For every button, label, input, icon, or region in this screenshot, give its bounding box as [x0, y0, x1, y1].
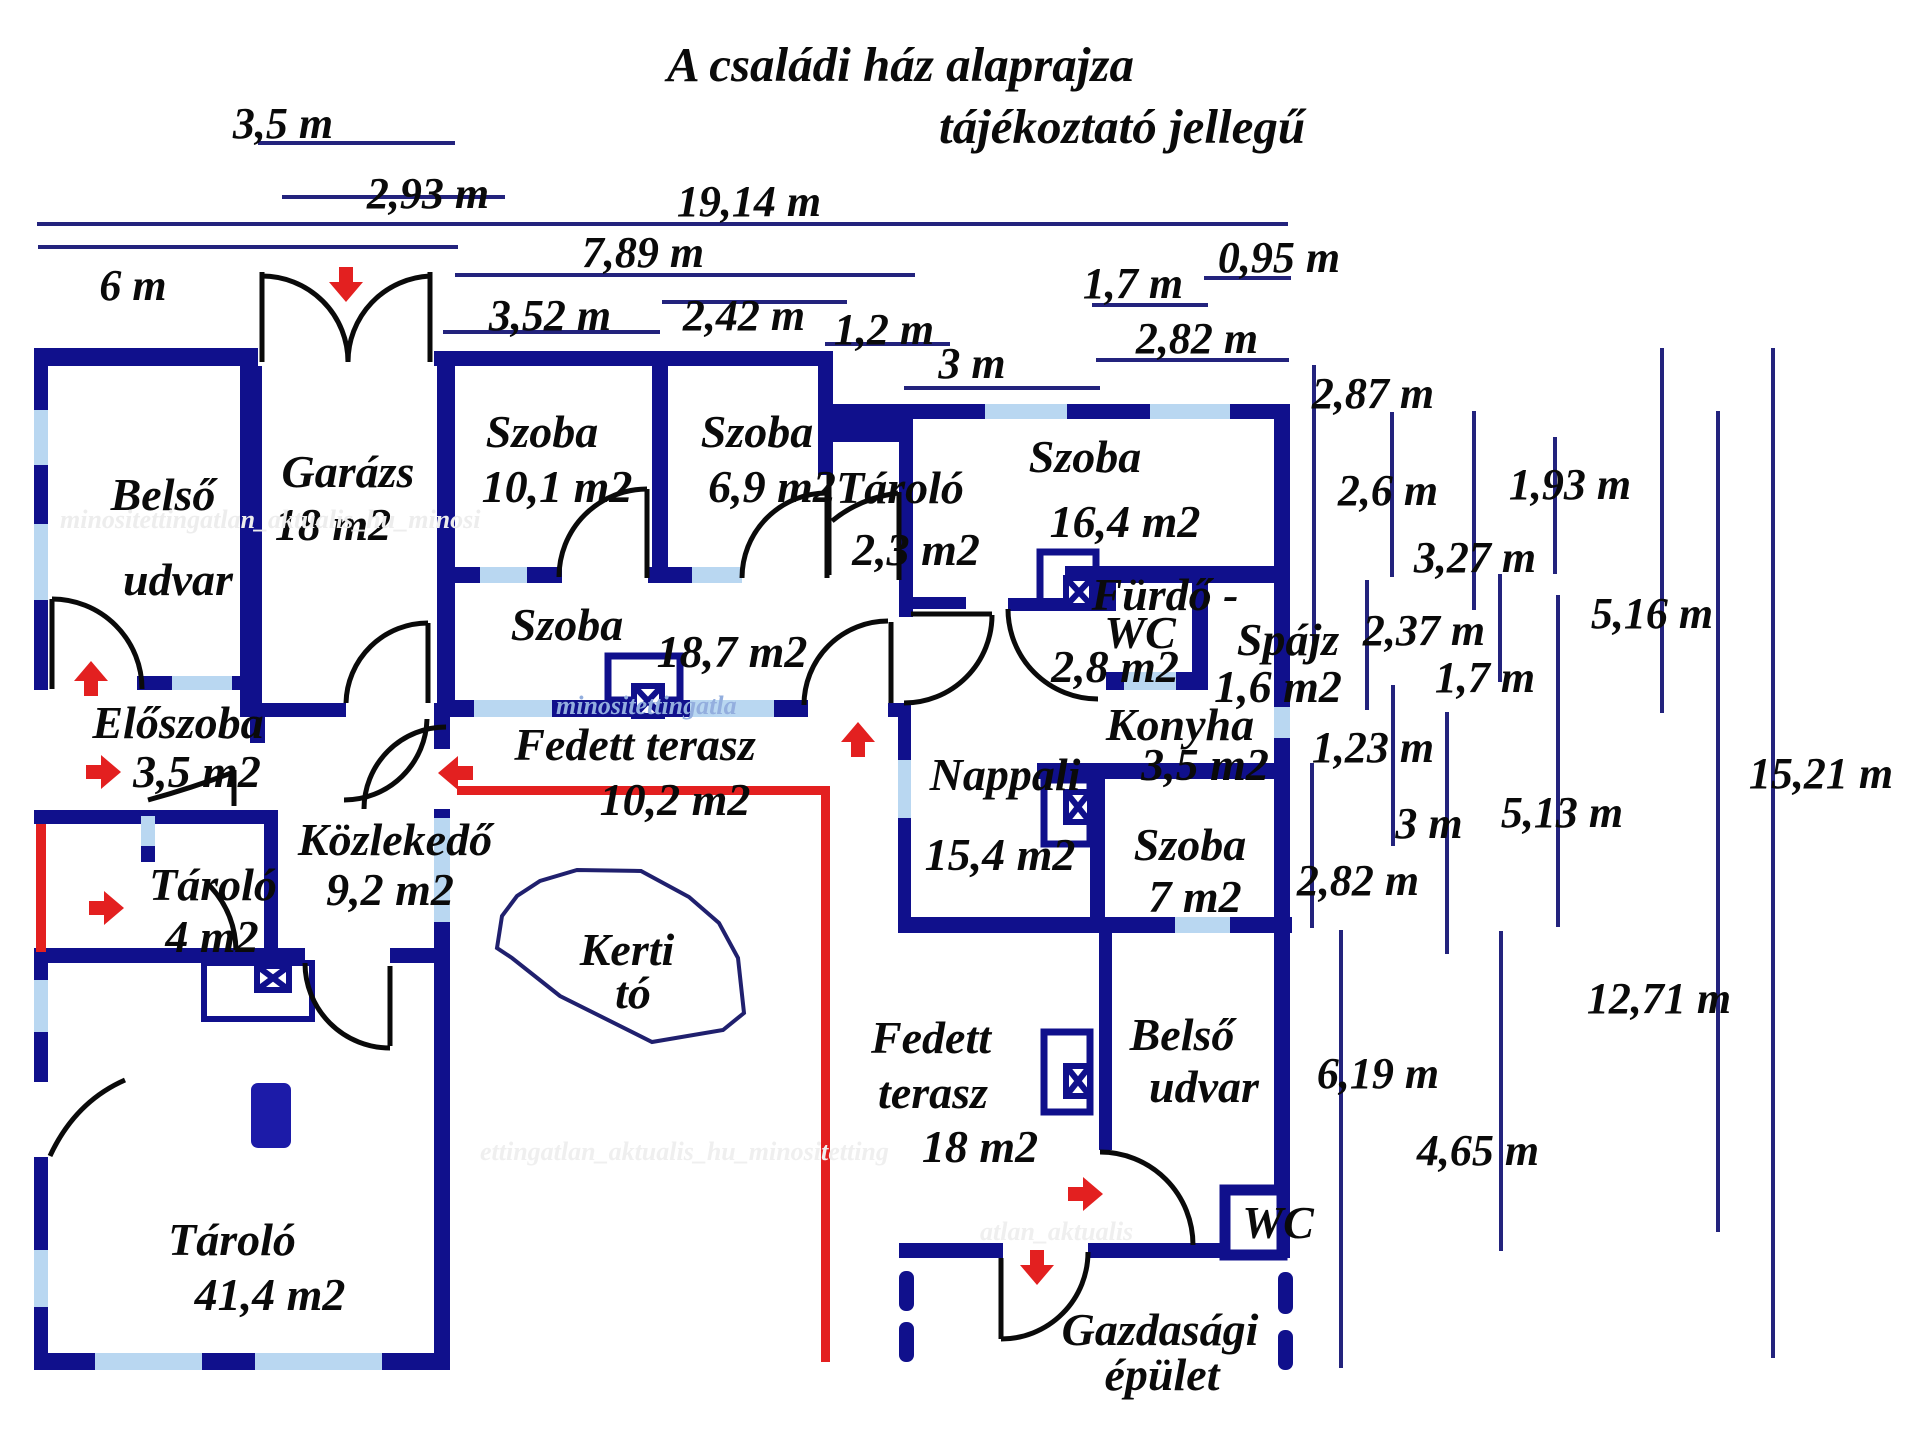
svg-text:6 m: 6 m — [99, 261, 166, 310]
window bottom wall 1 — [95, 1353, 202, 1370]
door szoba6,9 arc — [742, 493, 827, 578]
svg-text:A családi ház alaprajza: A családi ház alaprajza — [664, 37, 1134, 92]
arrow left kozlekedo — [438, 756, 473, 790]
svg-text:10,1 m2: 10,1 m2 — [482, 461, 633, 512]
svg-text:15,21 m: 15,21 m — [1749, 749, 1893, 798]
right wing east wall — [1274, 404, 1290, 707]
fürdő west wall — [1099, 577, 1116, 611]
garage north door left arc — [262, 276, 348, 362]
door belso udvar arc — [52, 599, 142, 689]
svg-text:Garázs: Garázs — [282, 446, 415, 497]
svg-text:12,71 m: 12,71 m — [1587, 974, 1731, 1023]
svg-text:Nappali: Nappali — [929, 749, 1081, 800]
svg-text:udvar: udvar — [123, 554, 234, 605]
window under szoba10,1 — [480, 567, 527, 583]
stub wall 2 — [1008, 598, 1100, 611]
window nappali west — [898, 760, 911, 818]
svg-text:tájékoztató jellegű: tájékoztató jellegű — [939, 99, 1307, 154]
svg-text:3 m: 3 m — [1394, 799, 1462, 848]
dim line 3 m — [904, 386, 1100, 390]
svg-text:minositettingatlan_aktualis_hu: minositettingatlan_aktualis_hu_minosi — [60, 505, 481, 534]
door szoba6,9 leaf — [825, 493, 830, 578]
north wall mid segment — [434, 351, 831, 366]
divider szoba10,1/6,9 — [652, 366, 668, 580]
red wall taroló4 — [36, 824, 46, 952]
svg-text:Gazdasági: Gazdasági — [1062, 1304, 1259, 1355]
svg-text:Szoba: Szoba — [486, 406, 598, 457]
arrow right belso udvar lower — [1068, 1177, 1103, 1211]
garage west wall — [240, 366, 262, 717]
window west wall lower 2 — [34, 1250, 48, 1307]
door taroló2,3 second leaf — [897, 492, 902, 580]
dim line 3 m second vertical — [1445, 712, 1449, 954]
svg-text:2,82 m: 2,82 m — [1296, 856, 1419, 905]
eloszoba door leaf — [232, 770, 237, 806]
stove big taroló xbox — [257, 966, 289, 990]
garage north door right arc — [348, 276, 430, 362]
svg-text:3,5 m2: 3,5 m2 — [132, 746, 261, 797]
door B arc — [904, 615, 992, 703]
svg-text:19,14 m: 19,14 m — [677, 177, 821, 226]
arrow down garage — [329, 267, 363, 302]
bottom wall right wing — [899, 1243, 1003, 1258]
svg-text:3,5 m: 3,5 m — [232, 99, 333, 148]
svg-text:41,4 m2: 41,4 m2 — [194, 1269, 346, 1320]
garage south door arc — [346, 623, 428, 703]
svg-text:2,82 m: 2,82 m — [1135, 314, 1258, 363]
right wing north wall — [900, 404, 985, 419]
door E leaf — [999, 1258, 1004, 1339]
svg-text:18 m2: 18 m2 — [922, 1121, 1038, 1172]
big taroló top door arc — [305, 963, 390, 1048]
svg-text:9,2 m2: 9,2 m2 — [326, 864, 454, 915]
stub wall 1 — [911, 597, 966, 609]
window band 1 — [474, 700, 552, 717]
red terrace line horizontal — [457, 786, 830, 795]
taroló4 east wall — [264, 810, 278, 963]
dim line 5,13 m vertical — [1556, 595, 1560, 927]
dim line 19,14 m — [37, 222, 1288, 226]
dim line 1,2 m — [825, 342, 950, 346]
svg-text:Tároló: Tároló — [836, 462, 964, 513]
konyha/szoba7 wall — [1037, 763, 1280, 779]
garage east wall — [437, 351, 455, 704]
svg-text:tó: tó — [615, 967, 651, 1018]
door belso udvar leaf — [50, 599, 55, 689]
stove szoba 16,4 outline — [1040, 552, 1096, 602]
svg-text:6,19 m: 6,19 m — [1317, 1049, 1439, 1098]
dim line 15,21 m vertical — [1771, 348, 1775, 1358]
svg-text:10,2 m2: 10,2 m2 — [600, 774, 751, 825]
stove szoba7 xbox — [1066, 792, 1090, 822]
dim line 2,93 m — [282, 195, 505, 199]
kozlekedo door arc second — [344, 719, 427, 800]
dashed line right gazdasagi — [1278, 1272, 1293, 1314]
door D arc — [1100, 1152, 1193, 1245]
svg-text:1,23 m: 1,23 m — [1312, 723, 1434, 772]
stove belso udvar lower xbox — [1066, 1066, 1090, 1096]
svg-text:Fedett terasz: Fedett terasz — [513, 719, 756, 770]
stove belso udvar lower outline — [1044, 1032, 1090, 1112]
svg-text:Tároló: Tároló — [168, 1214, 296, 1265]
eloszoba door arc — [148, 772, 234, 800]
window west wall 2 — [34, 524, 48, 600]
dim line 3,27 m vertical — [1472, 411, 1476, 610]
szoba7 west wall — [1090, 763, 1105, 933]
dim line 7,89 m — [455, 273, 915, 277]
stove szoba 18,7 xbox — [634, 686, 662, 716]
stove szoba 16,4 xbox — [1066, 578, 1092, 606]
dim line 2,82 m — [1096, 358, 1289, 362]
window belso udvar bottom — [172, 676, 232, 690]
svg-text:udvar: udvar — [1149, 1061, 1260, 1112]
dim line 2,42 m — [662, 300, 847, 304]
svg-text:2,3 m2: 2,3 m2 — [851, 524, 980, 575]
fürdő bottom wall — [1106, 672, 1124, 690]
arrow down gazdasagi — [1020, 1250, 1054, 1285]
west wall lower segments — [34, 952, 48, 980]
window north wall right wing 2 — [1150, 404, 1230, 419]
svg-text:3,52 m: 3,52 m — [488, 291, 611, 340]
arrow up belso udvar — [74, 661, 108, 696]
window eloszoba stub — [141, 816, 155, 846]
dashed line left gazdasagi — [899, 1271, 914, 1311]
wall under szobas — [448, 567, 480, 583]
svg-text:1,7 m: 1,7 m — [1083, 259, 1183, 308]
door taroló2,3 arc — [832, 493, 898, 521]
eloszoba/taroló4 top wall — [34, 810, 278, 824]
svg-text:15,4 m2: 15,4 m2 — [925, 829, 1076, 880]
svg-text:5,13 m: 5,13 m — [1501, 788, 1623, 837]
dim line 1,93 m vertical — [1553, 437, 1557, 574]
svg-text:4,65 m: 4,65 m — [1416, 1126, 1539, 1175]
szoba 16,4 bottom wall — [1065, 566, 1278, 583]
window szoba7 bottom — [1175, 917, 1230, 933]
dim line 12,71 m vertical — [1716, 411, 1720, 1232]
window north wall right wing 1 — [985, 404, 1067, 419]
svg-text:atlan_aktualis: atlan_aktualis — [980, 1217, 1133, 1246]
door C arc — [1008, 609, 1098, 699]
svg-text:2,8 m2: 2,8 m2 — [1050, 641, 1179, 692]
garage north door right leaf — [428, 272, 433, 362]
dim line 2,6 m vertical — [1390, 412, 1394, 577]
door B leaf — [911, 612, 992, 617]
bottom wall big taroló — [34, 1353, 95, 1370]
belso udvar bottom wall — [137, 676, 172, 690]
window under szoba6,9 — [692, 567, 742, 583]
svg-text:2,87 m: 2,87 m — [1311, 369, 1434, 418]
svg-text:Fedett: Fedett — [870, 1012, 992, 1063]
taroló4/bigtarolo wall — [34, 948, 305, 963]
corner block — [826, 404, 913, 442]
hall west wall below block — [899, 442, 913, 617]
big taroló west door arc — [50, 1080, 125, 1156]
big taroló top door leaf — [388, 966, 393, 1046]
dim line 1,7 m second vertical — [1498, 574, 1502, 682]
svg-text:2,37 m: 2,37 m — [1362, 606, 1485, 655]
door E arc — [1001, 1252, 1088, 1339]
svg-text:Előszoba: Előszoba — [91, 697, 263, 748]
dim line 2,82 m second vertical — [1310, 763, 1314, 928]
svg-text:minositettingatla: minositettingatla — [556, 691, 737, 720]
svg-text:Szoba: Szoba — [701, 406, 813, 457]
window band 2 — [690, 700, 774, 717]
door szoba10,1 arc — [559, 489, 647, 577]
door A arc — [804, 621, 888, 705]
arrow right taroló4 — [89, 891, 124, 925]
door szoba10,1 leaf — [645, 489, 650, 578]
garage wall stub below — [250, 717, 265, 743]
kozlekedo-terrace door arc — [364, 727, 446, 809]
band wall y700 segments — [448, 700, 474, 717]
svg-text:terasz: terasz — [878, 1067, 988, 1118]
dim line 6,19 m vertical — [1339, 930, 1343, 1368]
window fürdő bottom — [1124, 672, 1176, 690]
south wall nappali/szoba7 — [899, 917, 1175, 933]
svg-text:1,2 m: 1,2 m — [834, 305, 934, 354]
dim line 1,23 m vertical — [1391, 685, 1395, 846]
door taroló2,3 leaf — [827, 475, 832, 575]
north wall left segment — [34, 348, 258, 366]
door A leaf — [889, 622, 894, 703]
window west wall lower 1 — [34, 980, 48, 1032]
svg-text:3,5 m2: 3,5 m2 — [1140, 739, 1269, 790]
red terrace line vertical — [821, 786, 830, 1362]
dim line 0,95 m — [1204, 276, 1291, 280]
stove szoba7 outline — [1044, 780, 1090, 844]
svg-text:1,93 m: 1,93 m — [1509, 460, 1631, 509]
dim line 4,65 m vertical — [1499, 931, 1503, 1251]
stove big taroló outline — [204, 963, 312, 1019]
svg-text:18,7 m2: 18,7 m2 — [657, 626, 808, 677]
nappali west wall — [898, 705, 911, 760]
svg-text:0,95 m: 0,95 m — [1218, 233, 1340, 282]
svg-text:3,27 m: 3,27 m — [1413, 533, 1536, 582]
svg-text:16,4 m2: 16,4 m2 — [1050, 496, 1201, 547]
dim line 5,16 m vertical — [1660, 348, 1664, 713]
arrow up terrace — [841, 722, 875, 757]
svg-text:2,6 m: 2,6 m — [1337, 466, 1438, 515]
garage south wall — [252, 703, 346, 717]
taroló4 interior door arc — [206, 882, 236, 950]
window kozlekedo east — [434, 818, 450, 922]
svg-text:Spájz: Spájz — [1237, 614, 1339, 665]
svg-text:6,9 m2: 6,9 m2 — [708, 461, 836, 512]
window east wall — [1274, 707, 1290, 738]
garage north door left leaf — [260, 272, 265, 362]
svg-text:Szoba: Szoba — [1134, 819, 1246, 870]
dim line 2,37 m vertical — [1365, 580, 1369, 710]
stove szoba 18,7 outline — [608, 656, 680, 700]
west wall upper — [34, 348, 48, 410]
svg-text:7,89 m: 7,89 m — [582, 228, 704, 277]
dim line 6 m — [38, 245, 458, 249]
garage south door leaf — [426, 623, 431, 703]
fürdő/spájz divider — [1192, 577, 1208, 690]
window west wall 1 — [34, 410, 48, 465]
svg-text:2,42 m: 2,42 m — [682, 291, 805, 340]
svg-text:WC: WC — [1242, 1197, 1315, 1248]
svg-text:5,16 m: 5,16 m — [1591, 589, 1713, 638]
kozlekedo east wall pieces — [434, 703, 450, 749]
dim line 3,5 m — [258, 141, 455, 145]
svg-text:1,7 m: 1,7 m — [1435, 653, 1535, 702]
window bottom wall 2 — [255, 1353, 382, 1370]
svg-text:Tároló: Tároló — [149, 859, 277, 910]
svg-text:3 m: 3 m — [937, 339, 1005, 388]
svg-text:4 m2: 4 m2 — [164, 911, 258, 962]
svg-text:épület: épület — [1105, 1349, 1221, 1400]
WC room box — [1225, 1190, 1282, 1255]
dim line 1,7 m — [1092, 303, 1208, 307]
svg-text:2,93 m: 2,93 m — [366, 169, 489, 218]
svg-text:Szoba: Szoba — [1029, 431, 1141, 482]
svg-text:Belső: Belső — [1129, 1009, 1238, 1060]
dim line 3,52 m — [443, 330, 660, 334]
svg-text:7 m2: 7 m2 — [1148, 871, 1241, 922]
dim line 2,87 m vertical — [1312, 365, 1316, 655]
svg-text:ettingatlan_aktualis_hu_minosi: ettingatlan_aktualis_hu_minositetting — [480, 1137, 889, 1166]
pillar big taroló — [251, 1083, 291, 1148]
arrow right eloszoba — [86, 755, 121, 789]
east wall upper (szoba 6,9 right) — [818, 351, 833, 475]
belso udvar lower west wall — [1099, 933, 1112, 1150]
svg-text:Szoba: Szoba — [511, 599, 623, 650]
kerti tó pond — [497, 870, 744, 1042]
svg-text:Közlekedő: Közlekedő — [297, 814, 495, 865]
